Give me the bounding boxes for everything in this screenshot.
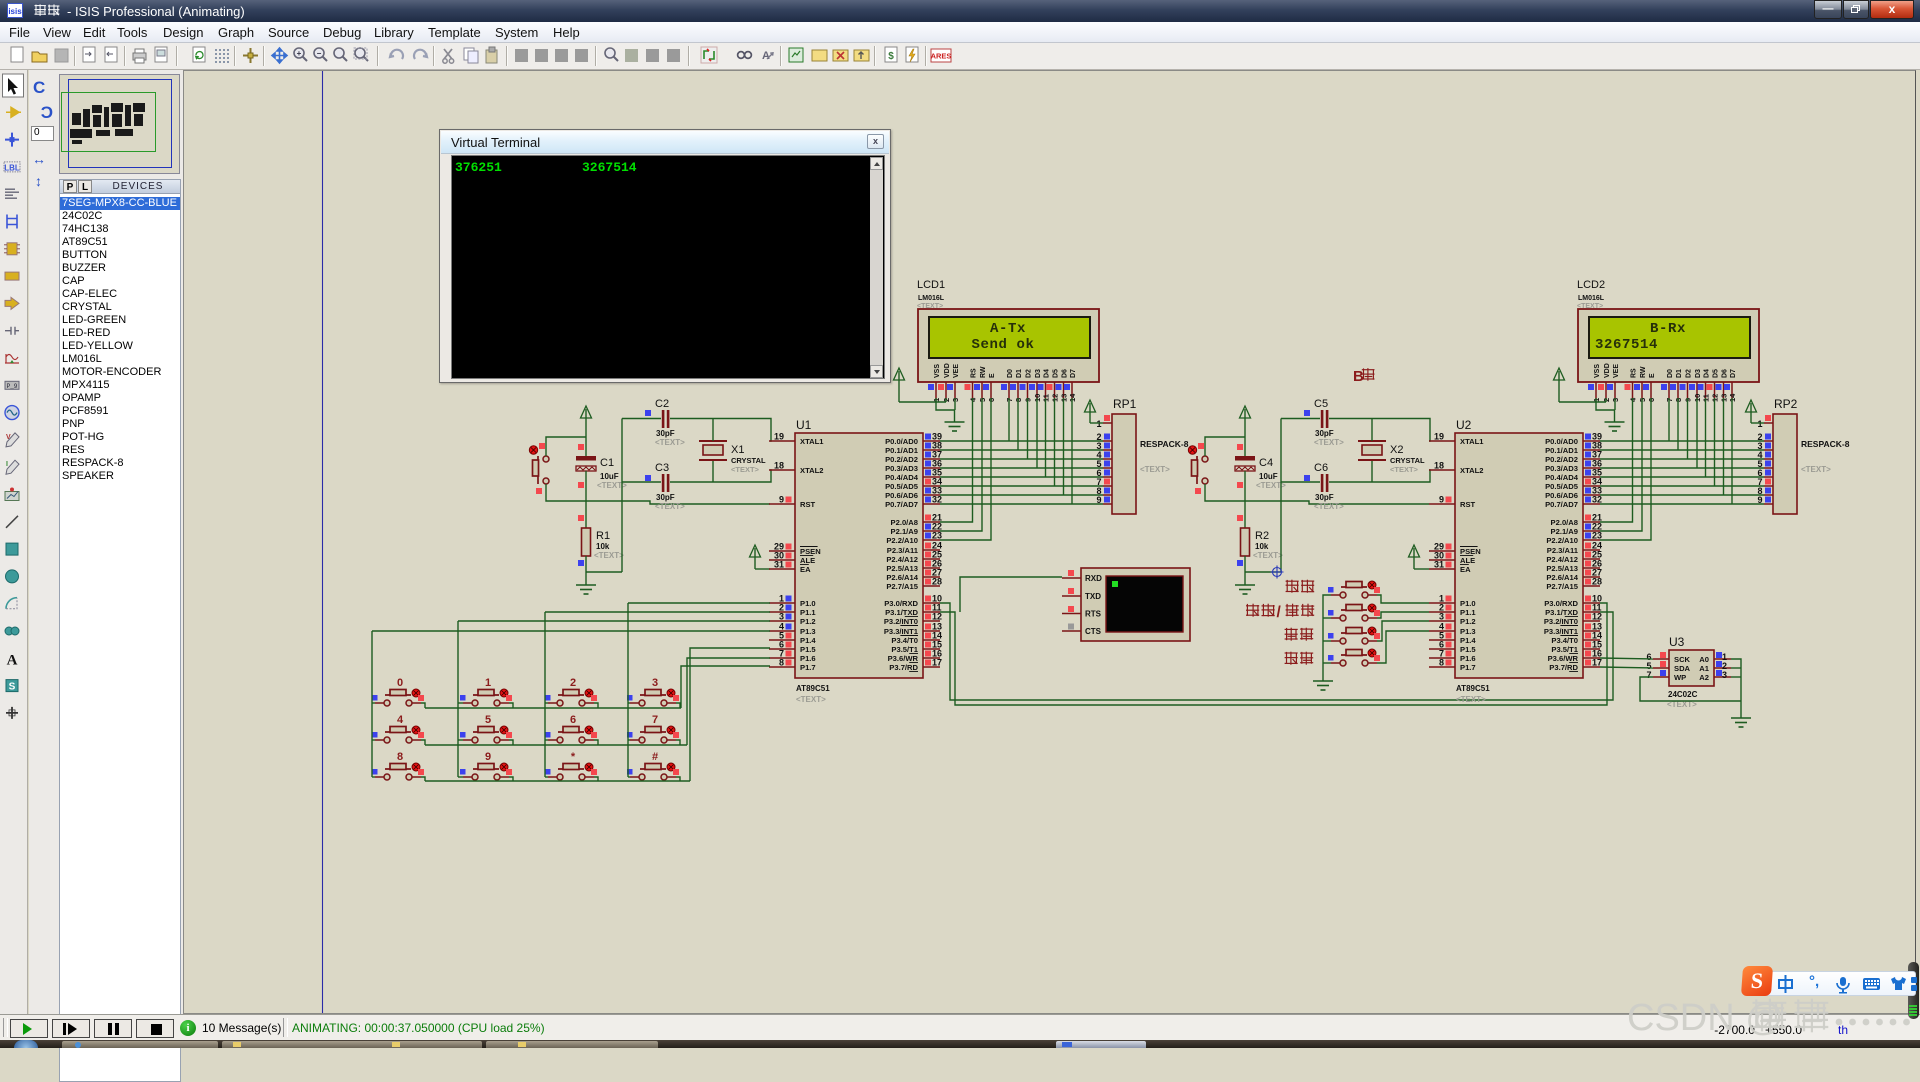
svg-text:RP2: RP2	[1774, 397, 1798, 411]
wire	[940, 485, 1103, 487]
svg-text:P1.2: P1.2	[1460, 617, 1476, 626]
wire	[594, 703, 598, 708]
wire	[940, 503, 1103, 505]
wire	[509, 703, 513, 708]
svg-text:P1.3: P1.3	[800, 627, 816, 636]
svg-text:S: S	[9, 682, 16, 693]
svg-text:P3.2/INT0: P3.2/INT0	[884, 617, 918, 626]
wire	[628, 602, 770, 604]
svg-text:C1: C1	[600, 457, 614, 469]
schematic canvas	[183, 70, 1916, 1014]
svg-text:D4: D4	[1704, 369, 1711, 378]
sheet boundary line	[322, 71, 324, 1013]
wire	[509, 740, 513, 745]
svg-text:1: 1	[1096, 419, 1101, 429]
wire	[1714, 398, 1716, 486]
svg-text:P1.3: P1.3	[1460, 627, 1476, 636]
svg-text:12: 12	[932, 612, 942, 622]
svg-text:28: 28	[932, 577, 942, 587]
svg-text:P3.1/TXD: P3.1/TXD	[1545, 608, 1578, 617]
wire	[1687, 398, 1689, 459]
keypad button #	[627, 751, 679, 780]
svg-text:P0.5/AD5: P0.5/AD5	[1545, 482, 1579, 491]
wire	[628, 702, 630, 704]
svg-text:- ISIS Professional (Animating: - ISIS Professional (Animating)	[67, 4, 245, 19]
svg-text:P3.0/RXD: P3.0/RXD	[1544, 599, 1578, 608]
wire	[1600, 485, 1764, 487]
wire	[458, 776, 463, 778]
svg-text:P2.7/A15: P2.7/A15	[1546, 582, 1578, 591]
svg-text:3: 3	[1439, 612, 1444, 622]
wire	[1017, 398, 1019, 450]
svg-text:<TEXT>: <TEXT>	[1390, 465, 1419, 474]
svg-text:P1.6: P1.6	[1460, 654, 1476, 663]
svg-text:B: B	[1353, 368, 1364, 385]
wire	[1731, 676, 1741, 678]
keypad button 6	[545, 714, 597, 743]
svg-text:RESPACK-8: RESPACK-8	[1801, 439, 1850, 449]
wire	[1008, 398, 1010, 441]
wire	[421, 777, 425, 781]
svg-text:RTS: RTS	[1085, 610, 1102, 619]
svg-text:A-Tx: A-Tx	[990, 321, 1026, 337]
wire	[1244, 556, 1246, 585]
resistor pack RP1 RESPACK-8	[1096, 397, 1188, 514]
svg-text:3267514: 3267514	[1595, 337, 1658, 353]
svg-text:9: 9	[485, 751, 491, 763]
left tool strip	[0, 70, 28, 1014]
wire	[425, 744, 687, 746]
svg-text:P1.0: P1.0	[1460, 599, 1476, 608]
svg-text:P2.6/A14: P2.6/A14	[886, 573, 918, 582]
svg-text:1: 1	[485, 677, 491, 689]
ground	[945, 422, 965, 431]
label B-duan	[1353, 368, 1375, 385]
svg-text:P3.3/INT1: P3.3/INT1	[1544, 627, 1579, 636]
wire	[681, 666, 770, 708]
svg-text:<TEXT>: <TEXT>	[731, 465, 760, 474]
svg-text:<TEXT>: <TEXT>	[1577, 303, 1603, 310]
wire	[1600, 398, 1633, 522]
svg-text:10uF: 10uF	[1259, 472, 1278, 481]
wire	[622, 481, 661, 483]
svg-text:SDA: SDA	[1674, 664, 1691, 673]
svg-text:RW: RW	[980, 366, 987, 378]
wire	[1731, 398, 1733, 504]
svg-text:30pF: 30pF	[1315, 493, 1334, 502]
virtual terminal component (RXD/TXD/RTS/CTS)	[1062, 568, 1190, 641]
svg-text:C3: C3	[655, 462, 669, 474]
wire	[1280, 419, 1282, 573]
wire	[676, 703, 680, 708]
svg-text:C6: C6	[1314, 462, 1328, 474]
svg-text:D5: D5	[1713, 369, 1720, 378]
svg-text:LBL: LBL	[4, 163, 20, 172]
svg-text:<TEXT>: <TEXT>	[796, 695, 826, 704]
LCD2 LM016L display	[1577, 279, 1759, 402]
power terminal	[1746, 400, 1757, 423]
svg-text:P3.4/T0: P3.4/T0	[1551, 636, 1578, 645]
svg-text:VSS: VSS	[934, 364, 941, 378]
wire	[1371, 419, 1373, 442]
svg-text:24C02C: 24C02C	[1668, 690, 1698, 699]
svg-text:U1: U1	[796, 418, 812, 432]
svg-text:P0.1/AD1: P0.1/AD1	[885, 446, 919, 455]
svg-text:WP: WP	[1674, 673, 1686, 682]
wire	[1205, 484, 1429, 504]
svg-text:$: $	[888, 51, 894, 62]
svg-text:RXD: RXD	[1085, 574, 1102, 583]
wire	[585, 471, 587, 528]
power terminal	[1554, 368, 1565, 402]
svg-text:Send ok: Send ok	[971, 337, 1034, 353]
object selector	[58, 70, 183, 1014]
svg-text:P2.2/A10: P2.2/A10	[886, 536, 918, 545]
svg-text:LCD2: LCD2	[1577, 279, 1605, 291]
svg-text:6: 6	[570, 714, 576, 726]
wire	[1054, 398, 1056, 486]
svg-text:23: 23	[932, 531, 942, 541]
svg-text:30pF: 30pF	[656, 429, 675, 438]
wire	[545, 776, 548, 778]
svg-text:I: I	[6, 461, 8, 468]
wire	[1731, 659, 1741, 718]
svg-text:E: E	[989, 373, 996, 378]
wire	[1090, 422, 1103, 424]
wire	[940, 440, 1103, 442]
svg-text:P3.6/WR: P3.6/WR	[1548, 654, 1579, 663]
title bar	[0, 0, 1920, 22]
svg-text:C5: C5	[1314, 398, 1328, 410]
sogou IME bar	[1908, 962, 1919, 1019]
sheet origin marker	[1271, 566, 1284, 579]
svg-text:A1: A1	[1699, 664, 1709, 673]
svg-text:P0.6/AD6: P0.6/AD6	[1545, 491, 1578, 500]
power terminal	[1240, 406, 1251, 457]
svg-text:RP1: RP1	[1113, 397, 1137, 411]
svg-text:9: 9	[1096, 495, 1101, 505]
svg-text:LCD1: LCD1	[917, 279, 945, 291]
svg-text:4: 4	[397, 714, 404, 726]
svg-text:D6: D6	[1062, 369, 1069, 378]
svg-text:P2.2/A10: P2.2/A10	[1546, 536, 1578, 545]
svg-text:ALE: ALE	[800, 556, 815, 565]
svg-text:D0: D0	[1007, 369, 1014, 378]
svg-text:10k: 10k	[596, 542, 610, 551]
wire	[594, 777, 598, 781]
ground	[576, 585, 596, 594]
svg-text:D2: D2	[1686, 369, 1693, 378]
svg-text:<TEXT>: <TEXT>	[1253, 551, 1283, 560]
svg-text:10uF: 10uF	[600, 472, 619, 481]
LCD1 screen text	[971, 321, 1034, 353]
Virtual Terminal popup window	[439, 129, 891, 383]
svg-text:P0.0/AD0: P0.0/AD0	[1545, 437, 1578, 446]
svg-text:P0.7/AD7: P0.7/AD7	[885, 500, 918, 509]
wire	[546, 484, 770, 504]
svg-text:P2.4/A12: P2.4/A12	[886, 555, 918, 564]
wire	[1414, 568, 1429, 570]
label shanchu	[1285, 628, 1314, 641]
resistor R2	[1237, 515, 1283, 566]
wire	[1027, 398, 1029, 459]
svg-text:LM016L: LM016L	[918, 295, 945, 302]
wire	[945, 398, 947, 402]
wire	[594, 740, 598, 745]
wire	[1640, 677, 1741, 701]
wire	[1614, 398, 1616, 410]
svg-text:P3.5/T1: P3.5/T1	[1551, 645, 1578, 654]
wire	[1377, 631, 1429, 663]
capacitor C3	[645, 462, 685, 511]
svg-text:<TEXT>: <TEXT>	[1314, 502, 1344, 511]
svg-text:CRYSTAL: CRYSTAL	[1390, 456, 1425, 465]
svg-text:2: 2	[570, 677, 576, 689]
svg-text:P1.1: P1.1	[800, 608, 816, 617]
keypad button 9	[460, 751, 512, 780]
power terminal	[894, 368, 905, 402]
svg-text:P2.0/A8: P2.0/A8	[891, 518, 918, 527]
svg-text:D1: D1	[1676, 369, 1683, 378]
svg-text:X1: X1	[731, 444, 744, 456]
keypad button 1	[460, 677, 512, 706]
svg-text:TXD: TXD	[1085, 592, 1101, 601]
wire	[628, 739, 630, 741]
wire	[458, 739, 463, 741]
wire	[1723, 398, 1725, 495]
svg-text:P0.1/AD1: P0.1/AD1	[1545, 446, 1579, 455]
svg-text:19: 19	[774, 432, 784, 442]
keypad button 5	[460, 714, 512, 743]
wire	[372, 739, 375, 741]
wire	[586, 571, 622, 573]
svg-text:P0.2/AD2: P0.2/AD2	[1545, 455, 1578, 464]
wire	[1329, 419, 1430, 442]
wire	[670, 419, 771, 442]
crystal X2	[1358, 441, 1425, 474]
wire	[940, 467, 1103, 469]
power terminal	[1085, 400, 1096, 423]
svg-text:R2: R2	[1255, 530, 1269, 542]
wire	[1071, 398, 1073, 504]
svg-text:7: 7	[652, 714, 658, 726]
wire	[545, 739, 548, 741]
svg-text:RST: RST	[800, 500, 816, 509]
wire	[627, 603, 629, 777]
svg-text:SCK: SCK	[1674, 655, 1691, 664]
keypad button 2	[545, 677, 597, 706]
wire	[457, 621, 459, 777]
wire	[1205, 437, 1245, 456]
svg-text:A0: A0	[1699, 655, 1709, 664]
reset button A	[529, 443, 549, 494]
svg-text:P3.5/T1: P3.5/T1	[891, 645, 918, 654]
button 存储	[1328, 581, 1380, 598]
wire	[954, 410, 956, 422]
wire	[1371, 461, 1373, 482]
wire	[712, 461, 714, 482]
ground	[1731, 718, 1751, 727]
svg-text:AT89C51: AT89C51	[1456, 684, 1490, 693]
wire	[425, 780, 690, 782]
svg-text:8: 8	[397, 751, 403, 763]
svg-text:31: 31	[1434, 560, 1444, 570]
IC U3 24C02C	[1646, 635, 1731, 709]
wire	[1245, 571, 1281, 573]
svg-text:30pF: 30pF	[656, 493, 675, 502]
svg-text:A2: A2	[1699, 673, 1709, 682]
svg-text:XTAL2: XTAL2	[1460, 466, 1484, 475]
wire	[940, 449, 1103, 451]
svg-text:<TEXT>: <TEXT>	[655, 438, 685, 447]
svg-text:P1.6: P1.6	[800, 654, 816, 663]
wire	[1045, 398, 1047, 477]
toolbar	[0, 43, 1920, 70]
svg-text:A: A	[762, 50, 770, 62]
svg-text:P3.7/RD: P3.7/RD	[889, 663, 918, 672]
wire	[940, 458, 1103, 460]
svg-text:P2.4/A12: P2.4/A12	[1546, 555, 1578, 564]
svg-text:B-Rx: B-Rx	[1650, 321, 1686, 337]
wire	[421, 703, 425, 708]
svg-text:D0: D0	[1667, 369, 1674, 378]
wire	[687, 658, 770, 745]
svg-text:D3: D3	[1035, 369, 1042, 378]
svg-text:LM016L: LM016L	[1578, 295, 1605, 302]
svg-text:VDD: VDD	[944, 363, 951, 378]
wire	[1751, 422, 1764, 424]
CSDN watermark	[1627, 993, 1920, 1043]
svg-text:P1.4: P1.4	[1460, 636, 1476, 645]
svg-text:7: 7	[1646, 670, 1651, 680]
wire	[545, 611, 770, 613]
svg-text:XTAL1: XTAL1	[1460, 437, 1484, 446]
svg-text:<TEXT>: <TEXT>	[1456, 695, 1486, 704]
wire	[940, 398, 973, 522]
svg-text:3: 3	[1722, 670, 1727, 680]
ground	[1605, 422, 1625, 431]
svg-text:P1.2: P1.2	[800, 617, 816, 626]
svg-text:P_9: P_9	[7, 383, 18, 390]
wire	[936, 398, 955, 410]
wire	[1323, 662, 1331, 664]
svg-text:D2: D2	[1026, 369, 1033, 378]
svg-text:9: 9	[1439, 495, 1444, 505]
svg-text:XTAL2: XTAL2	[800, 466, 824, 475]
svg-text:P3.3/INT1: P3.3/INT1	[884, 627, 919, 636]
svg-text:P1.1: P1.1	[1460, 608, 1476, 617]
svg-text:RS: RS	[971, 368, 978, 378]
svg-text:R1: R1	[596, 530, 610, 542]
svg-text:P3.0/RXD: P3.0/RXD	[884, 599, 918, 608]
wire	[1063, 398, 1065, 495]
IC U2 AT89C51	[1429, 418, 1602, 704]
power terminal	[750, 545, 761, 569]
svg-text:1: 1	[1757, 419, 1762, 429]
wire	[940, 603, 1613, 700]
button 查看/切换	[1328, 604, 1380, 621]
wire	[1600, 503, 1764, 505]
wire	[421, 740, 425, 745]
wire	[1281, 418, 1320, 420]
svg-text:D1: D1	[1016, 369, 1023, 378]
svg-text:P2.5/A13: P2.5/A13	[886, 564, 918, 573]
wire	[1600, 476, 1764, 478]
svg-text:U3: U3	[1669, 635, 1685, 649]
svg-text:P2.5/A13: P2.5/A13	[1546, 564, 1578, 573]
svg-text:P1.5: P1.5	[800, 645, 816, 654]
wire	[1244, 471, 1246, 528]
ground	[1235, 585, 1255, 594]
svg-text:RS: RS	[1631, 368, 1638, 378]
wire	[1600, 440, 1764, 442]
svg-text:3: 3	[779, 612, 784, 622]
wire	[1377, 621, 1429, 641]
keypad button 3	[627, 677, 679, 706]
svg-text:D4: D4	[1044, 369, 1051, 378]
wire	[1600, 398, 1642, 531]
svg-text:31: 31	[774, 560, 784, 570]
LCD2 screen text	[1595, 321, 1686, 353]
wire	[755, 568, 770, 570]
wire	[1600, 458, 1764, 460]
wire	[940, 398, 982, 531]
svg-text:AT89C51: AT89C51	[796, 684, 830, 693]
capacitor C4	[1235, 444, 1286, 490]
wire	[1677, 398, 1679, 450]
svg-text:P0.3/AD3: P0.3/AD3	[885, 464, 918, 473]
svg-text:D7: D7	[1070, 369, 1077, 378]
svg-text:D3: D3	[1695, 369, 1702, 378]
wire	[622, 418, 661, 420]
svg-text:8: 8	[779, 658, 784, 668]
svg-text:P2.0/A8: P2.0/A8	[1551, 518, 1578, 527]
svg-text:P2.3/A11: P2.3/A11	[887, 546, 919, 555]
wire	[458, 702, 463, 704]
svg-text:5: 5	[485, 714, 491, 726]
svg-text:P3.6/WR: P3.6/WR	[888, 654, 919, 663]
svg-text:PSEN: PSEN	[800, 547, 821, 556]
wire	[1377, 595, 1429, 603]
wire	[1600, 667, 1653, 668]
label qingchu	[1285, 652, 1314, 665]
wire	[545, 702, 548, 704]
button 删除	[1328, 627, 1380, 644]
svg-text:U2: U2	[1456, 418, 1472, 432]
svg-text:9: 9	[779, 495, 784, 505]
svg-text:18: 18	[1434, 461, 1444, 471]
svg-text:P1.0: P1.0	[800, 599, 816, 608]
svg-text:C2: C2	[655, 398, 669, 410]
svg-text:<TEXT>: <TEXT>	[1801, 465, 1831, 474]
keypad button 8	[372, 751, 424, 780]
svg-text:P3.7/RD: P3.7/RD	[1549, 663, 1578, 672]
wire	[1600, 449, 1764, 451]
wire	[458, 620, 770, 622]
wire	[676, 740, 680, 745]
svg-text:ARES: ARES	[931, 52, 952, 61]
svg-text:P0.4/AD4: P0.4/AD4	[885, 473, 919, 482]
wire	[372, 776, 375, 778]
svg-text:PSEN: PSEN	[1460, 547, 1481, 556]
svg-text:CRYSTAL: CRYSTAL	[731, 456, 766, 465]
wire	[628, 776, 630, 778]
svg-text:P3.4/T0: P3.4/T0	[891, 636, 918, 645]
wire	[676, 777, 680, 781]
svg-text:8: 8	[1439, 658, 1444, 668]
svg-text:P0.7/AD7: P0.7/AD7	[1545, 500, 1578, 509]
wire	[585, 556, 587, 585]
